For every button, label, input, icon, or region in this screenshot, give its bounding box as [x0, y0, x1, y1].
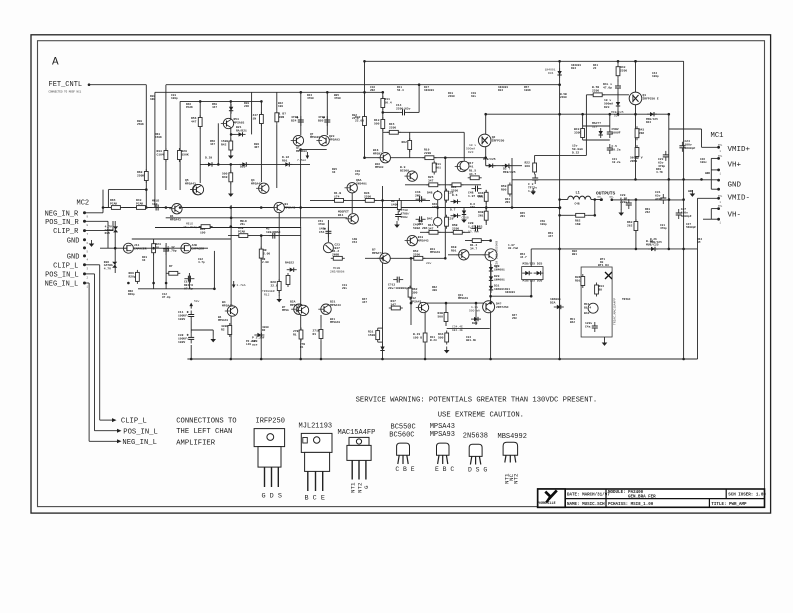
wire [490, 255, 492, 359]
resistor R1.5 [468, 176, 482, 180]
svg-text:1.7mA: 1.7mA [237, 284, 246, 287]
resistor R52 [411, 256, 425, 260]
wire [212, 330, 214, 336]
svg-text:VH+: VH+ [728, 162, 742, 170]
junction [230, 358, 233, 361]
wire [85, 212, 104, 214]
resistor R47 [581, 126, 585, 140]
diode D24 [486, 164, 496, 168]
svg-text:D34: D34 [548, 72, 554, 75]
junction [682, 198, 685, 201]
junction [489, 239, 492, 242]
junction [475, 302, 478, 305]
wire [213, 251, 215, 289]
svg-text:470p: 470p [655, 198, 662, 201]
junction [260, 206, 263, 209]
svg-text:2200: 2200 [560, 96, 567, 99]
wire [418, 109, 420, 112]
wire [445, 303, 447, 326]
svg-text:34.7: 34.7 [470, 247, 477, 250]
transistor Q42 [483, 249, 498, 261]
svg-text:ace: ace [252, 343, 258, 346]
wire [364, 61, 366, 157]
svg-text:470p: 470p [660, 227, 667, 230]
svg-text:1500: 1500 [368, 334, 375, 337]
logo box Yorkville [538, 489, 566, 507]
diode D22 [599, 128, 603, 138]
junction [152, 247, 155, 250]
svg-text:B1.4: B1.4 [584, 306, 591, 309]
diode D28 [489, 264, 493, 274]
wire [711, 157, 718, 159]
wire [165, 85, 167, 190]
svg-text:D.22: D.22 [572, 151, 579, 154]
svg-text:AMPLIFIER: AMPLIFIER [176, 439, 216, 447]
junction [145, 188, 148, 191]
svg-text:TRIAC_MAC15A4FP: TRIAC_MAC15A4FP [614, 298, 617, 325]
diode D34 [557, 68, 561, 78]
svg-text:VMID-: VMID- [728, 195, 751, 203]
svg-text:BC560C: BC560C [389, 432, 414, 440]
ground [228, 152, 234, 159]
svg-text:MPSA43: MPSA43 [430, 251, 440, 254]
svg-text:447: 447 [210, 143, 215, 146]
wire [228, 235, 301, 237]
svg-text:500: 500 [438, 336, 444, 339]
resistor R2 [228, 323, 232, 337]
optocoupler U3 [588, 303, 598, 313]
resistor R58b [236, 234, 250, 238]
svg-text:POS_IN_L: POS_IN_L [45, 272, 79, 280]
wire [485, 147, 487, 166]
svg-text:C B E: C B E [395, 466, 414, 473]
wire [251, 92, 253, 134]
arrow to POS_IN_L [117, 429, 122, 433]
svg-text:MPSA43: MPSA43 [458, 297, 468, 300]
wire [383, 111, 399, 113]
wire [99, 265, 101, 420]
wire [85, 220, 109, 222]
resistor R58 [591, 93, 605, 97]
svg-text:100 B: 100 B [413, 336, 422, 339]
pin VMID- [717, 197, 720, 200]
resistor R40 [229, 170, 233, 184]
svg-text:R1: R1 [313, 333, 317, 336]
junction [363, 91, 366, 94]
wire [710, 209, 712, 220]
svg-text:GND: GND [705, 172, 710, 175]
capacitor C5 [607, 144, 613, 154]
resistor R7 [166, 271, 180, 275]
junction [424, 358, 427, 361]
junction [484, 156, 487, 159]
wire [278, 212, 280, 296]
junction [635, 198, 638, 201]
wire [230, 183, 232, 191]
wire [300, 150, 302, 227]
svg-text:100: 100 [200, 231, 206, 234]
resistor R21 [260, 112, 264, 126]
wire [591, 199, 601, 201]
wire [95, 430, 118, 432]
svg-text:150K: 150K [155, 136, 162, 139]
wire [530, 249, 532, 267]
capacitor C47 [615, 82, 621, 92]
svg-text:D.29: D.29 [205, 157, 212, 160]
svg-text:1N: 1N [253, 117, 257, 120]
junction [381, 199, 384, 202]
junction [559, 206, 562, 209]
pin pair VH- [717, 207, 720, 210]
junction [600, 198, 603, 201]
resistor R44 [445, 331, 449, 345]
svg-text:B0: B0 [599, 288, 603, 291]
svg-text:100K: 100K [524, 89, 531, 92]
resistor R62a [408, 138, 412, 152]
wire [583, 139, 610, 141]
transistor Q31 [346, 214, 359, 224]
svg-text:B11: B11 [338, 214, 344, 217]
wire [511, 158, 513, 208]
wire [486, 113, 669, 115]
wire [382, 92, 384, 152]
junction [199, 100, 202, 103]
current arrow [189, 303, 193, 309]
svg-text:97.0p: 97.0p [184, 287, 193, 290]
wire [437, 190, 439, 228]
jfet J1 [123, 243, 133, 253]
svg-text:2N5401: 2N5401 [356, 182, 367, 185]
svg-text:GND: GND [688, 190, 693, 193]
svg-text:NAME: MUSIC.SCH: NAME: MUSIC.SCH [567, 503, 605, 507]
junction [165, 206, 168, 209]
junction [230, 100, 233, 103]
wire [418, 85, 420, 109]
svg-text:2N1: 2N1 [478, 214, 484, 217]
resistor R59 [508, 183, 512, 197]
transistor Q23 [291, 304, 304, 314]
wire [199, 101, 201, 183]
svg-text:1N0: 1N0 [150, 98, 155, 101]
resistor R25 [426, 183, 440, 187]
svg-text:R7: R7 [169, 265, 173, 268]
svg-text:1400: 1400 [391, 203, 398, 206]
svg-text:PCAK: PCAK [238, 230, 245, 233]
junction [363, 156, 366, 159]
svg-text:300: 300 [432, 289, 437, 292]
wire [621, 199, 683, 201]
svg-text:IRFP250: IRFP250 [256, 417, 285, 425]
svg-text:D23: D23 [468, 151, 474, 154]
junction [609, 113, 612, 116]
wire [180, 100, 261, 102]
junction [682, 358, 685, 361]
wire [102, 190, 104, 208]
wire [465, 240, 491, 242]
wire [669, 128, 702, 130]
svg-text:4700: 4700 [318, 223, 325, 226]
capacitor C1 [395, 211, 401, 221]
resistor R47b [389, 306, 403, 310]
svg-text:R2: R2 [221, 328, 225, 331]
wire [85, 273, 95, 275]
resistor R42 [229, 139, 233, 153]
svg-text:R12: R12 [264, 294, 270, 297]
resistor R23b [423, 331, 427, 345]
svg-text:R20p: R20p [128, 293, 135, 296]
wire [300, 227, 302, 359]
resistor R63 [634, 219, 638, 233]
wire [217, 123, 219, 164]
svg-text:5600pF: 5600pF [681, 215, 692, 218]
wire [620, 200, 622, 210]
resistor R71 [319, 327, 323, 341]
svg-text:MPSA43: MPSA43 [285, 206, 296, 209]
transistor QA [191, 184, 204, 194]
transistor Q9 [378, 153, 391, 163]
svg-text:MJL21193: MJL21193 [299, 423, 333, 431]
capacitor C40 [416, 216, 426, 222]
resistor R19 [422, 156, 436, 160]
svg-text:MPSA93: MPSA93 [234, 121, 245, 124]
connector pin NC [83, 246, 86, 249]
wire [230, 205, 232, 359]
svg-text:100: 100 [278, 105, 283, 108]
junction [594, 198, 597, 201]
junction [489, 295, 492, 298]
capacitor C13 [393, 277, 403, 283]
svg-text:MPS93: MPS93 [373, 152, 382, 155]
wire [668, 114, 670, 249]
wire [382, 186, 384, 359]
transistor C23 [323, 243, 333, 253]
capacitor C29 [626, 199, 632, 209]
junction [668, 198, 671, 201]
svg-text:B42: B42 [584, 312, 590, 315]
svg-text:1N4001: 1N4001 [494, 268, 505, 271]
wire [586, 94, 629, 96]
svg-text:R4022: R4022 [285, 262, 294, 265]
junction [617, 113, 620, 116]
svg-text:R2: R2 [262, 329, 266, 332]
wire [132, 238, 231, 240]
svg-text:34.7: 34.7 [520, 256, 527, 259]
svg-text:CONNECTIONS TO: CONNECTIONS TO [176, 418, 236, 426]
wire [447, 327, 490, 329]
junction [511, 206, 514, 209]
junction [558, 198, 561, 201]
wire [154, 92, 156, 207]
current arrow [232, 281, 236, 288]
wire [612, 199, 621, 201]
svg-text:D4C: D4C [427, 218, 433, 221]
svg-text:5600pF: 5600pF [686, 226, 696, 229]
resistor R4B [444, 310, 448, 324]
svg-text:347: 347 [428, 179, 434, 182]
wire [587, 214, 595, 216]
wire [89, 440, 117, 442]
svg-text:PCHAISS: MSI8_1.00: PCHAISS: MSI8_1.00 [608, 503, 654, 507]
svg-text:20v/100000pF: 20v/100000pF [388, 286, 410, 290]
transistor Q17 [455, 161, 468, 171]
svg-text:347: 347 [548, 235, 553, 238]
wire [100, 247, 208, 249]
capacitor C24 [296, 116, 304, 126]
resistor R20 [136, 270, 140, 284]
transistor Q32 [377, 253, 390, 263]
svg-text:C60: C60 [470, 206, 475, 209]
junction [165, 282, 168, 285]
resistor R36b [581, 274, 585, 288]
transistor Q8 [316, 135, 329, 145]
svg-text:4.7p: 4.7p [198, 261, 205, 264]
wire [710, 158, 712, 189]
svg-text:4700: 4700 [307, 97, 314, 100]
svg-text:IRFP250 E: IRFP250 E [643, 97, 659, 100]
title block frame [538, 489, 765, 507]
resistor R33 [164, 148, 168, 162]
junction [190, 358, 193, 361]
svg-text:MPSA43: MPSA43 [430, 423, 455, 431]
junction [489, 302, 492, 305]
svg-text:3300: 3300 [574, 131, 581, 134]
svg-text:500: 500 [438, 315, 444, 318]
capacitor C32 [163, 245, 169, 255]
wire [585, 95, 587, 156]
wire [326, 92, 328, 135]
svg-text:MIB/C25 D30: MIB/C25 D30 [523, 279, 543, 283]
svg-text:150K: 150K [182, 153, 189, 156]
svg-text:4.7K: 4.7K [656, 171, 663, 174]
svg-text:100v: 100v [700, 161, 707, 164]
svg-text:2N1: 2N1 [505, 201, 510, 204]
svg-text:R62: R62 [402, 141, 408, 144]
wire [165, 243, 167, 289]
resistor R22c [533, 161, 537, 175]
svg-text:SERVICE WARNING: POTENTIALS GR: SERVICE WARNING: POTENTIALS GREATER THAN… [356, 396, 598, 404]
wire [276, 124, 278, 188]
diode D42 [462, 208, 466, 218]
svg-text:D24: D24 [614, 115, 620, 118]
svg-text:2200: 2200 [620, 69, 627, 72]
junction [558, 248, 561, 251]
wire [260, 236, 262, 359]
resistor R36c [363, 199, 377, 203]
zener diode D35 [113, 226, 118, 232]
svg-text:500A 2N4: 500A 2N4 [413, 227, 428, 230]
wire [179, 101, 181, 190]
wire [327, 220, 329, 242]
svg-text:56.4: 56.4 [385, 101, 392, 104]
svg-text:CLIP_R: CLIP_R [53, 228, 79, 236]
junction [382, 111, 385, 114]
svg-text:347: 347 [391, 303, 397, 306]
wire [365, 60, 684, 62]
svg-text:16B: 16B [575, 223, 581, 226]
svg-text:100V: 100V [178, 318, 185, 321]
wire [365, 257, 445, 259]
package 2N5638 TO-92 [469, 444, 482, 464]
wire [410, 258, 412, 325]
svg-text:MPSA43: MPSA43 [222, 304, 233, 307]
svg-text:CLIP_L: CLIP_L [53, 262, 78, 270]
wire [701, 129, 703, 147]
svg-text:2N0: 2N0 [415, 194, 421, 197]
svg-text:BC550C: BC550C [391, 424, 416, 432]
svg-text:TRIAC: TRIAC [622, 298, 631, 301]
transistor Q34 [296, 305, 309, 315]
junction [484, 113, 487, 116]
junction [230, 217, 233, 220]
junction [444, 156, 447, 159]
ground [530, 188, 536, 195]
capacitor C31 [660, 194, 666, 204]
svg-text:MPSA93: MPSA93 [310, 136, 320, 139]
svg-text:L1: L1 [576, 192, 580, 196]
svg-text:D.6: D.6 [452, 194, 458, 197]
svg-text:B.23: B.23 [430, 339, 437, 342]
svg-text:B42: B42 [570, 321, 575, 324]
resistor R56 [198, 115, 202, 129]
svg-text:D35: D35 [105, 232, 111, 235]
junction [634, 60, 637, 63]
diode D31 [236, 132, 246, 136]
junction [363, 60, 366, 63]
transistor Q11 [221, 118, 234, 128]
svg-text:97p: 97p [355, 173, 360, 176]
svg-text:4.70p: 4.70p [168, 249, 177, 252]
junction [594, 214, 597, 217]
junction [326, 91, 329, 94]
svg-text:FET_CNTL: FET_CNTL [49, 81, 83, 89]
svg-text:MUB/C25: MUB/C25 [650, 240, 662, 244]
transistor Q22 [272, 202, 285, 212]
resistor R43 [616, 64, 620, 78]
svg-text:R01: R01 [282, 159, 288, 162]
diode D2A [554, 305, 564, 309]
transistor Q33 [405, 235, 418, 245]
capacitor C11 [187, 311, 195, 321]
svg-text:E B C: E B C [435, 466, 454, 473]
transistor Q5 [190, 184, 203, 194]
resistor R44 [635, 126, 639, 140]
svg-text:D24: D24 [646, 121, 651, 124]
wire [512, 179, 719, 181]
junction [260, 100, 263, 103]
pin pair VH+ [717, 157, 720, 160]
junction [558, 83, 561, 86]
svg-text:MTL: MTL [718, 195, 723, 198]
resistor R12 [381, 117, 385, 131]
resistor R1B [332, 199, 346, 203]
package MBS4992 TO-92 [503, 442, 517, 462]
junction [152, 282, 155, 285]
resistor R27 [299, 328, 303, 342]
wire [534, 155, 536, 160]
svg-text:MPSA43: MPSA43 [330, 321, 340, 324]
diode D25b [522, 271, 532, 275]
wire [409, 132, 411, 157]
svg-text:100p: 100p [171, 97, 178, 100]
svg-text:D S G: D S G [468, 466, 487, 473]
transistor Q41 [456, 250, 469, 260]
package BC550 TO-92 [397, 443, 410, 464]
svg-text:MPS93: MPS93 [375, 166, 384, 169]
svg-text:PCAK: PCAK [110, 202, 117, 205]
svg-text:R1: R1 [300, 346, 304, 349]
svg-text:100: 100 [152, 203, 158, 206]
svg-text:MPSA43: MPSA43 [170, 218, 181, 221]
